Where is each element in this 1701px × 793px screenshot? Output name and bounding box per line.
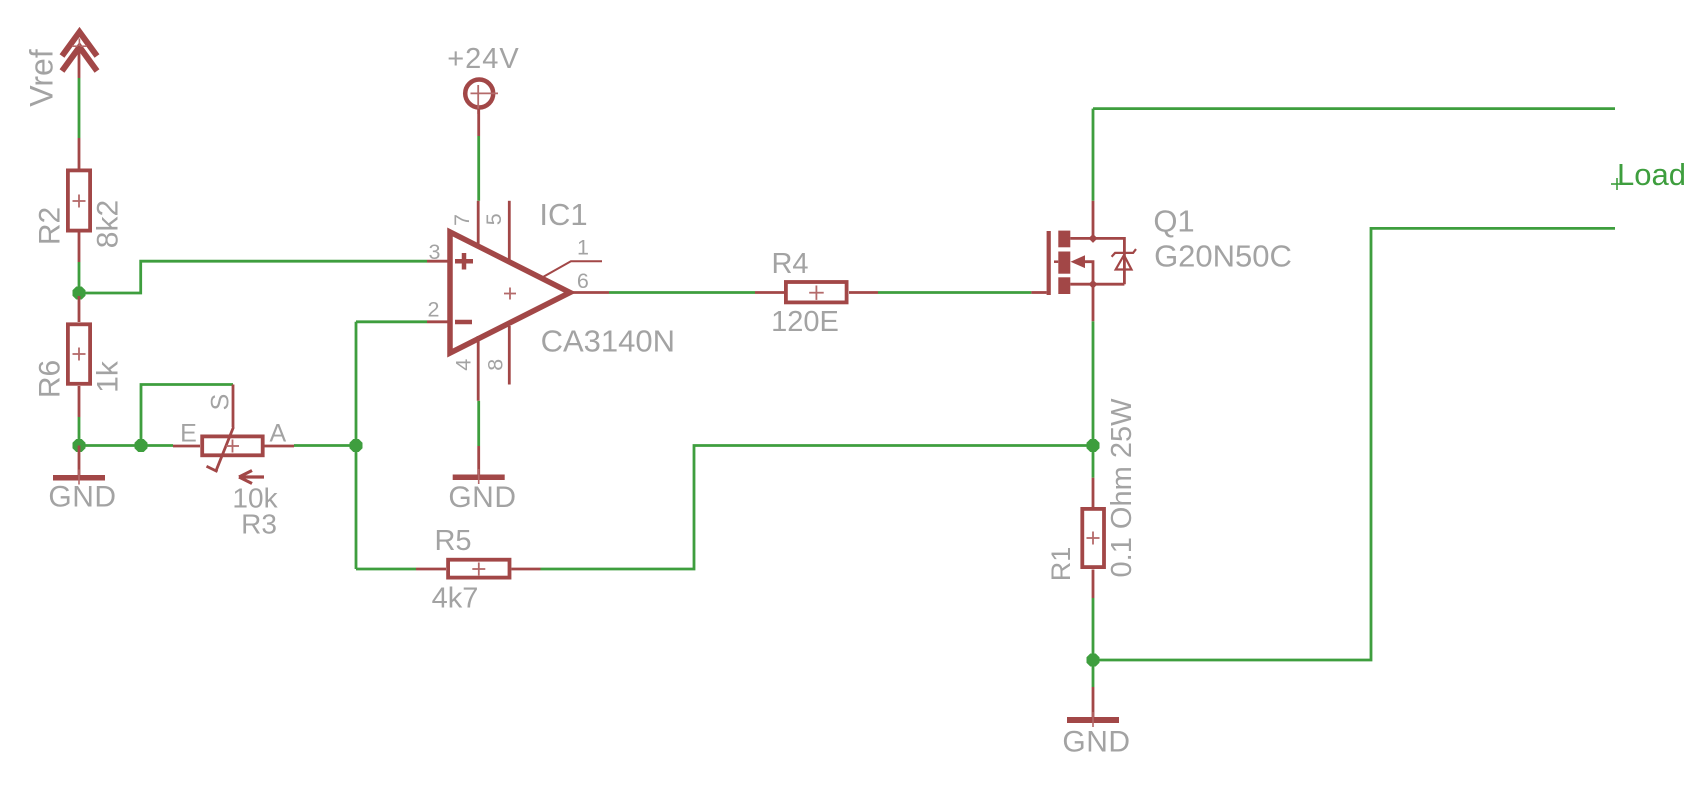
transistor Q1 gate lead [1031, 291, 1046, 294]
junction node E [1087, 439, 1100, 452]
ground op-amp pin [477, 446, 480, 475]
wire node E to R1 [1092, 446, 1095, 478]
wire pin 4 to GND [477, 401, 480, 446]
transistor Q1 channel top block [1058, 231, 1070, 248]
transistor Q1 drain pin [1092, 201, 1095, 239]
op-amp pin 5 [508, 201, 511, 261]
junction node B [73, 439, 86, 452]
ground left origin cross [78, 470, 80, 485]
pot R3 wiper tick [207, 466, 218, 471]
resistor R5 pins [416, 568, 446, 571]
wire pot A to node D [294, 444, 356, 447]
junction Q1 drain [1089, 234, 1098, 243]
pin Vref [78, 46, 81, 78]
resistor R6 pins [78, 296, 81, 322]
origin cross R4 [809, 286, 824, 300]
origin cross R3 [226, 440, 239, 453]
resistor R6 body [68, 324, 90, 384]
svg-text:Q1: Q1 [1153, 204, 1194, 239]
origin cross R1 [1087, 532, 1100, 545]
transistor Q1 gate bar [1047, 231, 1051, 295]
wire +24V to pin 7 [477, 136, 480, 201]
supply symbol +24V circle [465, 80, 493, 108]
resistor R1 body [1082, 509, 1104, 567]
svg-text:R1: R1 [1046, 547, 1076, 582]
svg-text:5: 5 [482, 213, 506, 225]
transistor Q1 channel bottom block [1058, 277, 1070, 294]
pot R3 pin A [265, 445, 295, 448]
wire node A to corner [79, 261, 427, 293]
node Load origin cross [1611, 178, 1623, 190]
svg-text:R4: R4 [771, 248, 808, 280]
svg-text:R6: R6 [34, 360, 67, 398]
op-amp pin 3 [427, 260, 449, 263]
svg-text:120E: 120E [771, 306, 839, 338]
origin cross R5 [472, 563, 485, 576]
junction node C [135, 439, 148, 452]
ground right bar [1067, 717, 1119, 723]
wire node F to Load return [1093, 228, 1615, 660]
resistor R4 body [786, 282, 847, 302]
svg-text:A: A [270, 420, 287, 448]
wire node B to pot E [79, 444, 173, 447]
wire R2 to node A [78, 262, 81, 293]
svg-text:7: 7 [450, 214, 474, 226]
svg-text:G20N50C: G20N50C [1154, 239, 1292, 274]
svg-text:GND: GND [48, 481, 116, 514]
op-amp pin 1 stub [543, 261, 602, 277]
wire node F to GND [1092, 660, 1095, 687]
op-amp pin 8 [508, 326, 511, 385]
svg-text:R5: R5 [434, 525, 471, 557]
op-amp origin cross [504, 288, 516, 300]
pot R3 set arrow [239, 471, 264, 484]
wire R4 to Q1 gate [878, 291, 1031, 294]
svg-text:0.1 Ohm 25W: 0.1 Ohm 25W [1106, 398, 1138, 578]
origin cross Vref [72, 39, 87, 54]
svg-text:E: E [180, 420, 197, 448]
svg-text:R2: R2 [34, 207, 67, 245]
svg-text:8: 8 [484, 359, 508, 371]
ground right origin cross [1092, 712, 1094, 727]
wire R6 to node B [78, 417, 81, 446]
wire drain to Load top [1093, 107, 1615, 110]
op-amp pin 2 [427, 320, 449, 323]
resistor R4 pins [755, 291, 784, 294]
transistor Q1 body arrow [1071, 255, 1086, 268]
svg-text:2: 2 [428, 298, 440, 322]
wire Q1 drain up [1092, 109, 1095, 201]
transistor Q1 source pin [1092, 284, 1095, 321]
svg-text:8k2: 8k2 [92, 200, 125, 248]
transistor Q1 channel middle block [1058, 252, 1070, 274]
origin cross R2 [73, 195, 86, 208]
junction Q1 source [1089, 280, 1098, 289]
transistor Q1 body connection [1085, 262, 1093, 285]
pot R3 wiper diagonal [216, 427, 234, 471]
op-amp pin 7 [477, 201, 480, 248]
ground op-amp origin cross [478, 469, 480, 484]
pot R3 body [202, 436, 263, 455]
ground right pin [1092, 687, 1095, 717]
wire R1 to node F [1092, 598, 1095, 660]
resistor R2 body [68, 170, 90, 230]
svg-text:+24V: +24V [447, 43, 520, 75]
wire to op-amp pin 2 [356, 320, 427, 323]
diode zener triangle [1116, 255, 1132, 269]
resistor R1 pins [1092, 478, 1095, 508]
svg-text:Vref: Vref [24, 49, 60, 107]
wire op-amp output to R4 [609, 291, 755, 294]
origin cross R6 [73, 348, 86, 361]
transistor Q1 drain lead [1070, 238, 1124, 284]
svg-text:4k7: 4k7 [432, 583, 479, 615]
svg-text:S: S [206, 394, 234, 411]
svg-text:1: 1 [577, 236, 589, 260]
wire node D to R5 [356, 568, 416, 571]
op-amp pin 4 [477, 336, 480, 401]
svg-text:GND: GND [448, 481, 516, 514]
op-amp plus input marker [455, 253, 473, 270]
resistor R5 body [448, 560, 509, 578]
svg-text:1k: 1k [92, 360, 125, 393]
svg-text:GND: GND [1062, 726, 1130, 759]
ground left pin [78, 446, 81, 476]
svg-text:IC1: IC1 [539, 197, 587, 232]
svg-text:R3: R3 [241, 509, 277, 540]
transistor Q1 source lead [1070, 283, 1124, 286]
ground left bar [53, 475, 105, 481]
op-amp minus input marker [455, 320, 472, 325]
diode zener bar [1112, 249, 1136, 257]
transistor Q1 substrate tick [1054, 260, 1058, 263]
resistor R2 pins [78, 138, 81, 169]
svg-text:CA3140N: CA3140N [541, 324, 675, 359]
svg-text:Load: Load [1617, 157, 1686, 192]
junction node A [73, 287, 86, 300]
svg-text:4: 4 [451, 359, 475, 371]
pot R3 wiper pin S [232, 385, 235, 428]
wire node C up to pot S [141, 385, 233, 446]
wire node D vertical [355, 322, 358, 569]
pin +24V [477, 109, 480, 136]
junction node F [1087, 654, 1100, 667]
op-amp IC1 body [450, 232, 570, 353]
wire Q1 source down [1092, 321, 1095, 445]
svg-text:6: 6 [577, 269, 589, 293]
wire R5 to feedback corner [541, 446, 1094, 570]
pot R3 pin E [173, 445, 200, 448]
ground op-amp bar [453, 475, 505, 481]
supply symbol Vref [62, 32, 97, 71]
svg-text:3: 3 [429, 240, 441, 264]
junction node D [350, 439, 363, 452]
op-amp pin 6 output [571, 291, 609, 294]
origin cross +24V [471, 85, 499, 114]
wire Vref to R2 [78, 78, 81, 138]
